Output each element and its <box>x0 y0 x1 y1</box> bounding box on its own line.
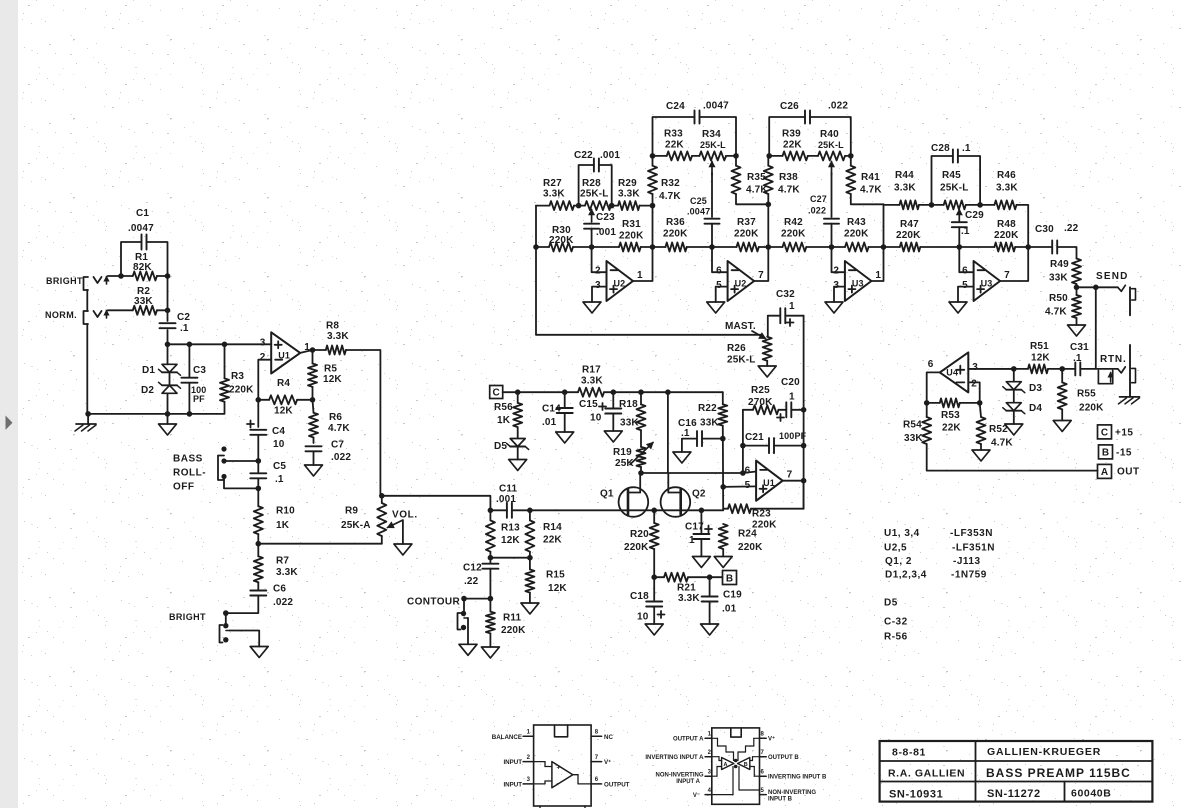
node rail C14 <box>562 389 568 395</box>
node bus U2b-out <box>766 244 772 250</box>
svg-text:R10: R10 <box>276 506 295 517</box>
title date 8-8-81 <box>892 747 926 759</box>
op-amp U1b <box>745 461 793 501</box>
svg-text:R28: R28 <box>582 178 601 189</box>
svg-text:+: + <box>557 765 561 772</box>
node C22 right <box>609 203 615 209</box>
wire C25 to bus <box>711 224 713 247</box>
ground U3b <box>949 302 967 313</box>
svg-text:C7: C7 <box>331 440 344 451</box>
node bus U2a-out <box>650 244 656 250</box>
wire fb column left <box>742 410 744 473</box>
ground R52 <box>972 450 990 461</box>
svg-text:220K: 220K <box>896 230 921 241</box>
node pin5/R22col <box>720 484 726 490</box>
capacitor C11 label <box>496 484 518 506</box>
capacitor C22 <box>594 159 599 172</box>
node C22 left <box>576 203 582 209</box>
wire C4 to C5 <box>257 436 259 473</box>
svg-text:.001: .001 <box>600 150 620 161</box>
svg-text:3.3K: 3.3K <box>678 593 700 604</box>
svg-text:R-56: R-56 <box>884 632 908 643</box>
resistor R47 label <box>896 219 921 241</box>
pinout labels right <box>604 734 630 789</box>
IC pinout LF353 body <box>712 728 760 804</box>
node rail Q2gate <box>665 389 671 395</box>
resistor R33 label <box>664 129 684 151</box>
wiper C27 arrow <box>829 162 834 176</box>
svg-text:220K: 220K <box>624 542 649 553</box>
jack BRIGHT out <box>220 623 230 643</box>
wire switch bottom contact <box>224 477 258 489</box>
wire C15 gnd stem <box>612 414 614 432</box>
zener D4 <box>1003 403 1025 414</box>
capacitor C6 <box>250 591 266 596</box>
wire contour jack gnd <box>467 618 470 644</box>
wire switch top contact <box>224 460 258 462</box>
capacitor C15 (electrolytic) <box>605 409 621 414</box>
title block frame <box>880 741 1153 802</box>
terminal B box power <box>1099 445 1113 459</box>
svg-text:.022: .022 <box>273 597 293 608</box>
wire jack sleeve column <box>86 290 88 311</box>
wire D2 to rail <box>167 393 169 414</box>
node pin6 <box>740 470 746 476</box>
label BRIGHT input <box>46 276 83 286</box>
wire Q2 gate <box>667 392 669 473</box>
wire C11 right <box>512 509 530 511</box>
resistor R11 <box>486 612 495 634</box>
IC pinout LF351 body <box>534 725 592 806</box>
wiper R26 arrow <box>752 331 766 339</box>
wire C14 gnd stem <box>564 413 566 432</box>
wire R20 top <box>653 510 655 523</box>
resistor R49 label <box>1049 259 1069 284</box>
resistor R13 label <box>501 523 520 547</box>
ground bright jack <box>250 647 268 658</box>
svg-text:-1N759: -1N759 <box>951 570 987 581</box>
svg-text:33K: 33K <box>700 418 719 429</box>
svg-text:3.3K: 3.3K <box>543 189 565 200</box>
ground C16 <box>673 452 691 463</box>
svg-text:25K-L: 25K-L <box>818 140 844 150</box>
wire R54 to out <box>927 444 1098 471</box>
resistor R52 label <box>989 424 1013 449</box>
wire R4 right <box>297 399 312 401</box>
svg-text:C3: C3 <box>193 365 206 376</box>
svg-text:C5: C5 <box>273 461 286 472</box>
wire U2a output <box>633 247 653 281</box>
node band1 right <box>650 203 656 209</box>
op-amp U4 <box>928 352 979 392</box>
capacitor C32 (electrolytic) <box>780 308 785 323</box>
wire D5 gnd stem <box>517 447 519 460</box>
wire norm to R2 <box>108 309 133 311</box>
capacitor C2 <box>160 323 176 328</box>
node bright out <box>223 610 229 616</box>
capacitor C5 <box>250 473 266 478</box>
svg-text:INPUT B: INPUT B <box>768 797 793 803</box>
svg-text:BRIGHT: BRIGHT <box>169 612 206 622</box>
wire R13R14 tie <box>489 552 491 564</box>
svg-text:R4: R4 <box>277 378 290 389</box>
resistor R20 <box>650 523 659 549</box>
wire C27 to bus <box>831 224 833 247</box>
wire C24 loop right <box>700 117 737 156</box>
capacitor C18 label <box>630 591 665 623</box>
wire R41 top <box>850 156 852 166</box>
svg-text:22K: 22K <box>543 535 562 546</box>
resistor R55 <box>1058 382 1067 409</box>
wire R6 bottom <box>313 438 315 444</box>
wire R26 gnd stem <box>766 361 768 366</box>
wire C29 to bus <box>958 227 960 247</box>
node C4/C5 <box>255 458 261 464</box>
pin 1 left <box>705 732 712 739</box>
ground C18 <box>645 624 663 635</box>
potentiometer R40 label <box>818 129 844 150</box>
svg-text:R53: R53 <box>941 410 960 421</box>
wire C17 top <box>700 510 702 534</box>
resistor R8 <box>326 346 346 355</box>
resistor R14 <box>525 520 534 551</box>
terminal B box <box>723 571 737 585</box>
svg-text:C: C <box>1101 428 1108 439</box>
svg-text:-15: -15 <box>1116 448 1132 459</box>
svg-text:25K-L: 25K-L <box>727 355 756 366</box>
svg-text:R41: R41 <box>861 172 880 183</box>
jack NORM input <box>84 311 109 325</box>
legend Q1,2 <box>885 556 981 567</box>
node bus C23 <box>589 244 595 250</box>
legend D1,2,3,4 <box>885 570 987 581</box>
svg-text:R14: R14 <box>543 522 562 533</box>
svg-text:-: - <box>557 781 559 788</box>
potentiometer R28 label <box>580 178 609 200</box>
svg-text:3: 3 <box>595 280 601 291</box>
label CONTOUR <box>407 597 461 608</box>
svg-text:ROLL-: ROLL- <box>173 468 206 479</box>
wire C18 gnd stem <box>653 607 655 625</box>
resistor R33 <box>667 151 692 160</box>
wire C5 bottom node <box>257 479 259 506</box>
svg-text:7: 7 <box>1004 270 1010 281</box>
pin 1 BALANCE <box>523 730 534 737</box>
svg-text:4.7K: 4.7K <box>1045 307 1067 318</box>
wiper C29 arrow <box>957 210 962 223</box>
resistor R43 <box>845 243 869 252</box>
svg-text:OUT: OUT <box>1117 467 1140 478</box>
wire C20 left <box>779 409 787 411</box>
svg-text:R33: R33 <box>664 129 683 140</box>
capacitor C32 label <box>776 289 795 326</box>
wire tie row <box>490 557 530 559</box>
wire C15 top <box>612 392 614 408</box>
svg-text:1K: 1K <box>497 415 511 426</box>
wire U3a output <box>871 247 883 281</box>
svg-text:OUTPUT B: OUTPUT B <box>768 755 799 761</box>
resistor R13 <box>486 520 495 551</box>
wire C32 right <box>785 315 803 317</box>
node band2 right <box>733 153 739 159</box>
wire R38 top <box>767 156 769 166</box>
svg-text:C32: C32 <box>776 289 795 300</box>
capacitor C30 <box>1052 241 1057 254</box>
capacitor C23 label <box>596 212 616 238</box>
diode D3 label <box>1029 383 1042 394</box>
wire bus to C30 <box>1028 246 1052 248</box>
wire R14 top <box>529 510 531 520</box>
svg-text:R50: R50 <box>1049 293 1068 304</box>
wire C32 left <box>768 316 781 337</box>
wire eq bus segment 7 <box>869 246 900 248</box>
resistor R50 <box>1072 295 1081 318</box>
wire R33-R34 <box>692 155 699 157</box>
capacitor C27 label <box>808 194 827 216</box>
svg-text:10: 10 <box>590 413 602 424</box>
wire Q1 gate <box>639 473 641 493</box>
zener D5 <box>507 439 529 450</box>
svg-text:R52: R52 <box>989 424 1008 435</box>
wire rtn gnd stem <box>1129 396 1132 397</box>
op-amp U2a <box>595 261 643 301</box>
resistor R7 <box>254 556 263 582</box>
svg-text:4.7K: 4.7K <box>991 438 1013 449</box>
resistor R55 label <box>1077 389 1104 414</box>
capacitor C18 (electrolytic) <box>646 602 662 607</box>
wire R2 to C2 <box>157 309 168 311</box>
transistor Q1 label <box>600 489 614 500</box>
wire R21 right <box>688 576 723 578</box>
svg-text:INPUT A: INPUT A <box>676 779 700 785</box>
svg-text:C23: C23 <box>596 212 615 223</box>
node vol top <box>379 493 385 499</box>
svg-text:R18: R18 <box>619 399 638 410</box>
svg-text:6: 6 <box>716 266 722 277</box>
resistor R30 <box>549 243 573 252</box>
svg-text:U1, 3,4: U1, 3,4 <box>884 528 920 539</box>
jack CONTOUR <box>458 611 468 630</box>
resistor R5 <box>308 364 317 387</box>
svg-text:R29: R29 <box>618 178 637 189</box>
node band3 right <box>848 153 854 159</box>
wire C21 right <box>774 445 804 447</box>
svg-text:C30: C30 <box>1035 224 1054 235</box>
node bus C25 <box>709 244 715 250</box>
wire R46 right <box>1017 205 1029 247</box>
pin 4 left <box>705 788 712 795</box>
svg-text:.022: .022 <box>331 452 351 463</box>
svg-text:NON-INVERTING: NON-INVERTING <box>656 773 704 779</box>
title R.A. GALLIEN <box>888 768 965 780</box>
resistor R29 label <box>618 178 640 200</box>
svg-text:PF: PF <box>193 394 205 404</box>
wire contour jack stem <box>463 599 465 614</box>
capacitor C20 label <box>777 377 800 421</box>
wire C24 loop left <box>653 117 695 156</box>
svg-text:3.3K: 3.3K <box>327 331 349 342</box>
wiper C23 arrow <box>589 210 594 223</box>
resistor R51 label <box>1030 341 1050 364</box>
svg-text:R11: R11 <box>503 613 522 624</box>
svg-text:220K: 220K <box>1079 403 1104 414</box>
resistor R22 label <box>698 403 719 429</box>
wire U2a inverting input <box>592 247 607 272</box>
capacitor C1 <box>142 235 147 250</box>
svg-text:12K: 12K <box>323 374 342 385</box>
capacitor C24 label <box>666 101 729 113</box>
zener D1 <box>159 364 181 375</box>
ground R15 <box>521 603 539 614</box>
capacitor C14 <box>557 408 573 413</box>
svg-text:220K: 220K <box>738 542 763 553</box>
wire R14 tie <box>529 552 531 570</box>
svg-text:R9: R9 <box>345 506 358 517</box>
wire R32 bottom <box>652 194 654 247</box>
wire R4 left <box>258 399 269 401</box>
resistor R42 <box>783 243 807 252</box>
capacitor C24 <box>695 111 700 124</box>
wire C26 loop left <box>769 117 805 156</box>
wire R9 bottom <box>381 536 383 544</box>
resistor R36 label <box>663 217 688 240</box>
wire R55 top <box>1061 369 1063 383</box>
wire R7 to C6 <box>257 582 259 590</box>
svg-text:U1: U1 <box>763 478 775 488</box>
svg-text:MAST.: MAST. <box>725 321 756 332</box>
resistor R35 <box>732 166 741 194</box>
node C5 bottom <box>255 486 261 492</box>
wire eq bus segment 8 <box>920 246 994 248</box>
svg-text:R15: R15 <box>546 570 565 581</box>
svg-text:33K: 33K <box>134 296 153 307</box>
svg-text:.01: .01 <box>542 417 557 428</box>
ground R55 <box>1053 421 1071 432</box>
capacitor C29 <box>952 222 967 227</box>
node C20 right <box>801 407 807 413</box>
capacitor C21 <box>769 438 774 453</box>
resistor R32 <box>648 166 657 194</box>
label +15 <box>1115 428 1133 439</box>
capacitor C30 label <box>1035 223 1079 235</box>
svg-text:220K: 220K <box>619 231 644 242</box>
wire C19 top <box>709 577 711 596</box>
ground (hatched) RTN jack <box>1119 397 1140 404</box>
svg-text:U4: U4 <box>946 367 958 377</box>
resistor R47 <box>900 243 921 252</box>
svg-text:INPUT: INPUT <box>503 759 522 766</box>
svg-text:R42: R42 <box>784 217 803 228</box>
transistor Q1 <box>619 487 649 517</box>
svg-text:-LF353N: -LF353N <box>950 528 993 539</box>
node U1b out <box>801 478 807 484</box>
zener D3 <box>1003 382 1025 393</box>
svg-text:V⁺: V⁺ <box>768 736 775 743</box>
wire R10 bottom <box>257 534 259 556</box>
capacitor C6 label <box>273 584 293 609</box>
svg-text:R5: R5 <box>324 364 337 375</box>
wire R34 right <box>726 155 736 157</box>
svg-text:R23: R23 <box>752 509 771 520</box>
wire C28 loop right <box>958 156 980 205</box>
svg-text:R25: R25 <box>751 385 770 396</box>
svg-text:100PF: 100PF <box>779 431 807 441</box>
node contour/R11 <box>488 596 494 602</box>
label MAST. <box>725 321 756 332</box>
wire rail2 <box>604 391 723 393</box>
svg-text:7: 7 <box>787 470 793 481</box>
node R1 right <box>165 273 171 279</box>
capacitor C21 label <box>745 431 807 443</box>
node R19 bottom <box>638 470 644 476</box>
transistor Q2 <box>661 487 691 517</box>
legend U1,3,4 <box>884 528 993 539</box>
resistor R11 label <box>501 613 526 637</box>
svg-text:C22: C22 <box>574 150 593 161</box>
wire C16 left <box>682 439 697 452</box>
svg-text:A: A <box>1101 467 1108 478</box>
ground U2a <box>583 302 601 313</box>
wire C20 right <box>791 409 803 411</box>
capacitor C27 <box>824 219 839 224</box>
svg-text:R46: R46 <box>997 170 1016 181</box>
svg-text:10: 10 <box>273 439 285 450</box>
wiper R19 <box>630 443 653 465</box>
ground R50 <box>1068 325 1086 336</box>
ground R26 <box>758 366 776 377</box>
svg-text:NON-INVERTING: NON-INVERTING <box>768 790 816 796</box>
ground C17 <box>692 557 710 568</box>
resistor R8 label <box>326 321 349 343</box>
resistor R35 label <box>746 172 768 196</box>
capacitor C4 (electrolytic) <box>250 430 266 435</box>
resistor R37 label <box>734 217 759 240</box>
title GALLIEN-KRUEGER <box>987 746 1101 758</box>
wire R3 top <box>224 344 226 378</box>
wire band4 row left <box>884 204 900 206</box>
ground R24 <box>714 557 732 568</box>
resistor R1 label <box>133 252 152 273</box>
capacitor C3 <box>181 378 197 383</box>
node C2 bottom <box>165 342 171 348</box>
wire source-drain bus <box>530 509 723 511</box>
svg-text:R49: R49 <box>1050 259 1069 270</box>
wire R3 bottom <box>87 402 224 414</box>
svg-text:3: 3 <box>972 362 978 373</box>
label SEND <box>1096 271 1129 282</box>
wire R22 top <box>722 392 724 404</box>
capacitor C1 value label <box>128 208 154 234</box>
pinout LF353 labels left <box>645 737 704 800</box>
ground (hatched) input rail <box>75 424 96 431</box>
potentiometer R9 <box>377 503 386 536</box>
svg-text:C29: C29 <box>965 210 984 221</box>
svg-text:.01: .01 <box>722 604 737 615</box>
wire C30 right <box>1057 247 1076 259</box>
svg-text:5: 5 <box>716 280 722 291</box>
resistor R2 <box>133 306 157 315</box>
resistor R48 label <box>994 219 1019 241</box>
svg-text:7: 7 <box>758 270 764 281</box>
title 60040B <box>1071 788 1111 800</box>
wire C27 top <box>831 173 833 217</box>
svg-text:R7: R7 <box>276 556 289 567</box>
svg-text:3.3K: 3.3K <box>618 189 640 200</box>
resistor R18 label <box>619 399 639 429</box>
node C11 left <box>488 508 494 514</box>
wire R1 to C2 node <box>157 275 168 277</box>
svg-text:220K: 220K <box>781 229 806 240</box>
